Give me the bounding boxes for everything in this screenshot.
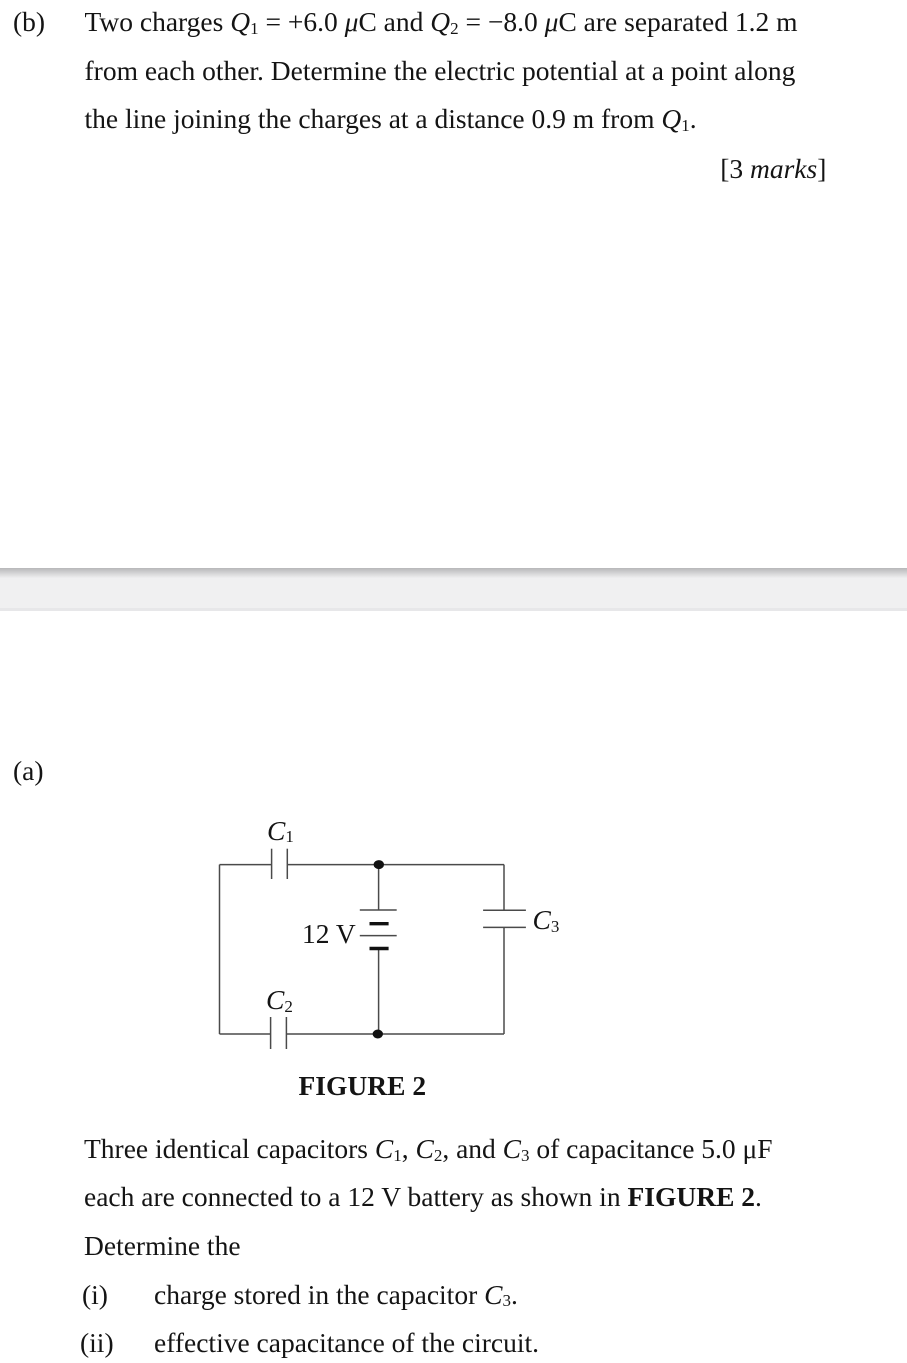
gray separator band [0, 568, 907, 611]
bottom paragraph line 1 [84, 1135, 773, 1163]
capacitor C3 plates [483, 909, 526, 911]
paragraph line 3 [85, 105, 697, 133]
node junction top [374, 860, 384, 869]
wire top left segment [220, 864, 272, 866]
node junction bottom [373, 1030, 383, 1039]
paragraph line 2 [85, 57, 796, 85]
label battery value 12 V [302, 920, 356, 948]
label C2 [266, 986, 293, 1014]
wire right vertical upper [503, 865, 505, 911]
battery V1 long plates [360, 909, 397, 911]
question (b) label [13, 8, 45, 36]
figure caption [299, 1072, 427, 1100]
wire bottom right segment [286, 1033, 504, 1035]
paragraph line 1 [85, 8, 798, 36]
wire right vertical lower [503, 927, 505, 1034]
wire battery bottom lead [378, 949, 380, 1035]
capacitor C2 plates [270, 1017, 272, 1049]
bottom paragraph line 2 [84, 1183, 762, 1211]
wire battery top lead [378, 865, 380, 910]
bottom paragraph line 3 [84, 1232, 241, 1260]
item (ii) [80, 1329, 114, 1357]
battery V1 short plates [370, 922, 389, 925]
item (i) [82, 1281, 108, 1309]
wire top right segment [287, 864, 504, 866]
wire bottom left segment [220, 1033, 271, 1035]
question (a) label [13, 757, 44, 785]
marks line [720, 155, 826, 183]
label C1 [267, 817, 294, 845]
wire left vertical [219, 865, 221, 1034]
capacitor C1 plates [271, 849, 273, 879]
label C3 [533, 906, 560, 934]
